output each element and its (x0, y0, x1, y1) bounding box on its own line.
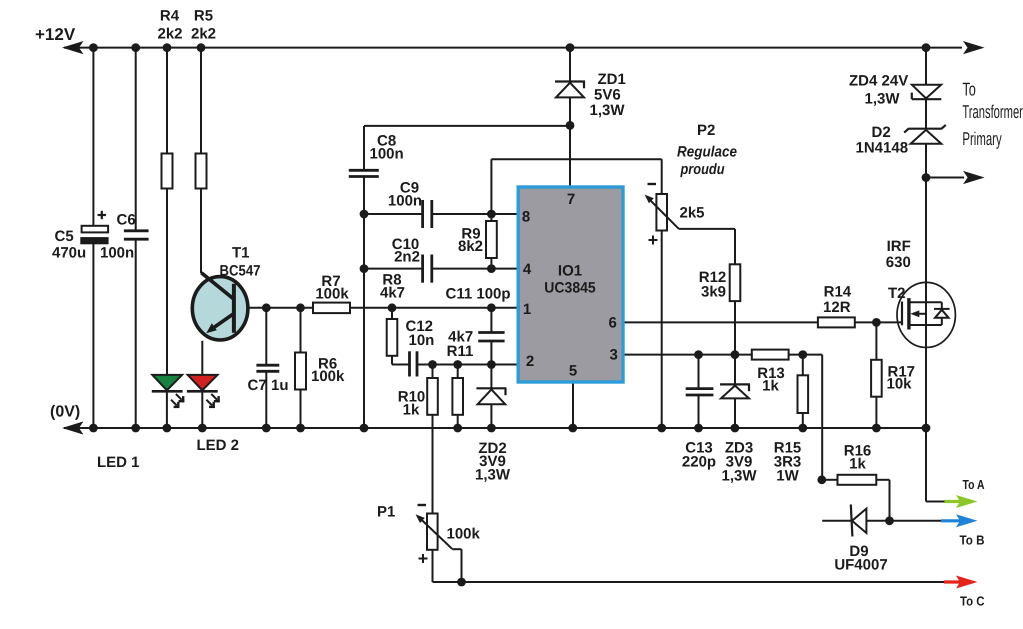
svg-text:+12V: +12V (35, 25, 76, 44)
svg-text:P2: P2 (697, 122, 715, 139)
svg-text:12R: 12R (823, 299, 851, 316)
svg-text:3k9: 3k9 (701, 284, 726, 301)
svg-text:Transformer: Transformer (962, 101, 1023, 122)
svg-text:470u: 470u (52, 245, 86, 262)
svg-text:8: 8 (522, 209, 530, 226)
svg-text:5: 5 (569, 363, 577, 380)
svg-text:P1: P1 (377, 504, 395, 521)
svg-text:100k: 100k (315, 286, 349, 303)
svg-text:2k2: 2k2 (157, 26, 182, 43)
svg-text:To A: To A (963, 477, 985, 492)
svg-text:2k2: 2k2 (191, 26, 216, 43)
svg-text:220p: 220p (682, 454, 716, 471)
svg-text:C7: C7 (248, 377, 267, 394)
svg-text:1: 1 (523, 301, 531, 318)
svg-text:LED 1: LED 1 (97, 454, 140, 471)
svg-text:1u: 1u (271, 377, 289, 394)
svg-text:C6: C6 (117, 212, 136, 229)
svg-text:100k: 100k (311, 368, 345, 385)
svg-text:1,3W: 1,3W (865, 91, 901, 108)
svg-text:R4: R4 (160, 8, 180, 25)
svg-text:10k: 10k (887, 376, 913, 393)
svg-text:T2: T2 (888, 285, 906, 302)
svg-text:IRF: IRF (887, 238, 911, 255)
svg-text:2: 2 (526, 353, 534, 370)
svg-text:1k: 1k (403, 402, 420, 419)
svg-text:100k: 100k (447, 526, 481, 543)
svg-text:Regulace: Regulace (677, 144, 737, 161)
svg-text:1,3W: 1,3W (721, 468, 757, 485)
svg-text:(0V): (0V) (50, 404, 80, 421)
svg-text:ZD4 24V: ZD4 24V (849, 73, 908, 90)
svg-text:To: To (962, 78, 976, 99)
svg-text:1k: 1k (762, 378, 779, 395)
svg-text:1W: 1W (776, 468, 799, 485)
svg-text:3: 3 (610, 347, 618, 364)
svg-text:C5: C5 (55, 228, 74, 245)
svg-text:1,3W: 1,3W (590, 102, 626, 119)
svg-text:IO1: IO1 (558, 263, 582, 280)
svg-text:BC547: BC547 (220, 263, 261, 280)
svg-text:7: 7 (567, 191, 575, 208)
svg-text:T1: T1 (232, 245, 250, 262)
svg-text:1N4148: 1N4148 (856, 140, 909, 157)
svg-text:8k2: 8k2 (458, 238, 483, 255)
svg-text:1,3W: 1,3W (475, 467, 511, 484)
svg-text:UF4007: UF4007 (834, 557, 887, 574)
svg-text:5V6: 5V6 (594, 87, 621, 104)
svg-text:UC3845: UC3845 (544, 280, 596, 297)
svg-text:2n2: 2n2 (394, 249, 420, 266)
svg-text:1k: 1k (849, 456, 866, 473)
svg-text:100n: 100n (370, 146, 404, 163)
svg-text:10n: 10n (409, 332, 435, 349)
svg-text:4k7: 4k7 (380, 285, 405, 302)
svg-text:R11: R11 (447, 343, 474, 360)
svg-text:ZD1: ZD1 (598, 71, 626, 88)
svg-text:To C: To C (960, 594, 985, 609)
svg-text:To B: To B (960, 533, 985, 548)
svg-text:proudu: proudu (680, 161, 725, 178)
svg-text:Primary: Primary (962, 128, 1002, 149)
svg-text:LED 2: LED 2 (197, 437, 240, 454)
svg-text:100n: 100n (100, 245, 134, 262)
svg-text:2k5: 2k5 (680, 205, 705, 222)
svg-text:R5: R5 (194, 8, 213, 25)
svg-text:6: 6 (609, 315, 617, 332)
svg-text:C11 100p: C11 100p (446, 286, 511, 303)
svg-text:D2: D2 (872, 124, 891, 141)
svg-text:630: 630 (886, 254, 911, 271)
svg-text:4: 4 (523, 261, 532, 278)
svg-text:100n: 100n (388, 193, 422, 210)
